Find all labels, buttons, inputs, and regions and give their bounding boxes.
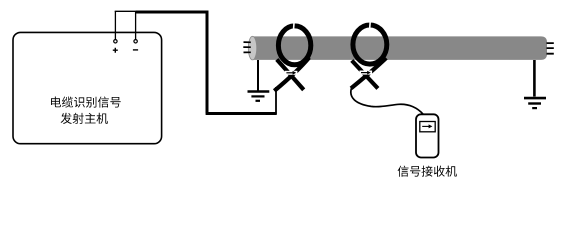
clamp CT2 arrow window: [360, 71, 373, 75]
clamp CT1 jaw gap notch: [293, 21, 296, 29]
label: plus sign: [113, 48, 118, 53]
ground symbol at cable right end: [524, 60, 546, 108]
thick output lead: top horizontal run to the right: [136, 11, 208, 14]
cable right end conductor ticks: [547, 43, 554, 54]
cable left end conductor ticks: [243, 42, 251, 52]
clamp CT2 handles: [352, 61, 378, 89]
cable left end cap: [248, 36, 256, 60]
receiver display icon square: [420, 122, 435, 132]
terminal - (negative output post): [134, 40, 137, 43]
transmitter box U1 (cable identification signal transmitter): [13, 32, 162, 143]
wire joining terminal leads at top: [115, 10, 137, 12]
wire from - terminal up: [135, 11, 137, 39]
label: minus sign: [133, 49, 138, 51]
flexible lead from clamp CT2 to receiver: [351, 88, 423, 114]
wire riser from bottom run up to clamp CT1 handle: [275, 87, 277, 115]
label: transmitter text line 2 发射主机: [61, 113, 108, 124]
wire from + terminal up: [114, 11, 116, 39]
terminal + (positive output post): [114, 40, 117, 43]
thick output lead: vertical drop at x=206.5: [206, 11, 209, 114]
clamp CT1: transmit coupler ring: [274, 21, 311, 91]
receiver handset body: [416, 114, 439, 157]
clamp CT1 handles: [277, 60, 304, 90]
clamp CT2: receive coupler ring: [351, 20, 387, 88]
clamp CT2 jaw gap notch: [369, 20, 372, 28]
label: transmitter text line 1 电缆识别信号: [51, 97, 121, 108]
receiver display arrow: [422, 125, 429, 127]
clamp CT2 flux arrow: [361, 72, 368, 74]
clamp CT1 arrow window: [285, 71, 298, 75]
clamp CT1 flux arrow: [286, 72, 293, 74]
ground symbol at cable left end: [248, 60, 270, 101]
thick output lead: bottom horizontal run to clamp CT1: [206, 112, 277, 115]
label: receiver text 信号接收机: [398, 166, 457, 177]
cable under test (gray conductor): [253, 36, 548, 60]
